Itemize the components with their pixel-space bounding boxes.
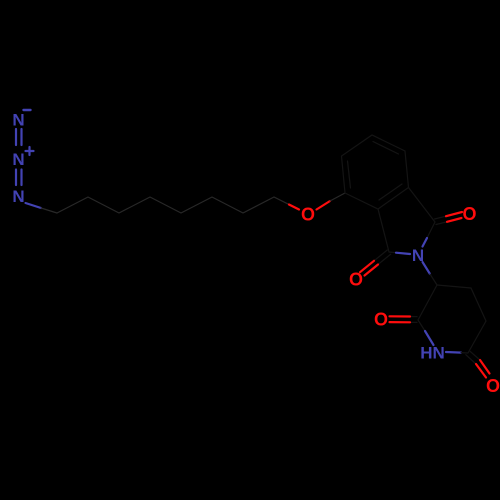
svg-text:O: O [301,205,315,225]
bond C2''-N1'' [418,320,434,345]
svg-text:HN: HN [420,344,445,363]
azide double bond N2=N3 [16,170,22,186]
bond C3a-C3 [378,209,389,252]
carbonyl C3=O3 double bond [360,250,391,276]
svg-text:O: O [374,309,388,329]
svg-text:O: O [349,269,363,289]
carbonyl C1=O double bond [435,212,463,225]
azide double bond N1=N2 [16,129,22,145]
svg-text:N: N [12,111,24,130]
bond C7a-C1 [409,188,436,223]
benzene ring C4-C5-C6-C7-C7a-C3a [342,135,409,209]
svg-text:N: N [12,187,24,206]
bond O-C4 [317,193,346,210]
bond C3-N2 [389,252,410,254]
bond C8-O ether [274,197,299,210]
bond C1-N2 [423,222,436,247]
azide N2 plus label [12,147,33,169]
bond N3-C1 [26,203,58,213]
bond N2-C3' [423,262,438,285]
bond C3'-C2'' [418,285,437,320]
bond C3'-C4'' [437,285,471,288]
carbonyl C2''=O'' double bond [390,316,418,322]
svg-text:O: O [462,204,476,224]
svg-text:N: N [12,150,24,169]
bond C5''-C6'' [468,321,486,353]
bond C4''-C5'' [471,288,486,321]
azide N1 minus label [12,110,30,130]
bond N1''-C6'' [446,352,468,353]
chain C1..C8 wire [57,197,274,213]
svg-text:O: O [486,376,500,396]
carbonyl C6''=O''' double bond [466,351,490,377]
